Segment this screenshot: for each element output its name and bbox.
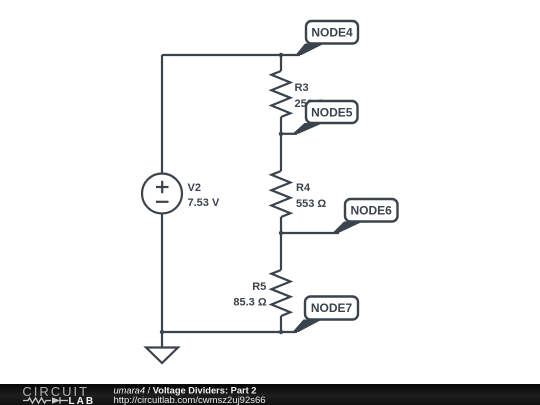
resistor R4 (271, 171, 290, 217)
wire: NODE6 flag stub (281, 232, 339, 234)
voltage source V2 (142, 174, 182, 214)
junction: NODE6 (279, 231, 283, 235)
svg-text:V2: V2 (188, 182, 201, 194)
logo schematic squiggle (23, 397, 68, 403)
footer bar (0, 384, 540, 405)
wire: left vertical below V2 (161, 214, 163, 333)
wire: left vertical above V2 (161, 55, 163, 174)
node flag NODE4 (296, 21, 359, 55)
wire: R5 to bottom net (280, 316, 282, 332)
svg-text:NODE7: NODE7 (311, 301, 353, 315)
wire: NODE6 junction to R5 (280, 233, 282, 270)
svg-text:NODE6: NODE6 (351, 204, 393, 218)
node flag NODE6 (333, 199, 398, 233)
svg-text:R5: R5 (252, 281, 266, 293)
svg-text:7.53 V: 7.53 V (188, 197, 220, 209)
junction: NODE7 (279, 330, 283, 334)
svg-text:R3: R3 (295, 82, 309, 94)
svg-text:R4: R4 (296, 182, 311, 194)
ground (146, 332, 178, 363)
svg-text:NODE4: NODE4 (311, 26, 353, 40)
svg-text:85.3 Ω: 85.3 Ω (233, 296, 266, 308)
wire: bottom horizontal net NODE7 (162, 331, 297, 333)
node flag NODE5 (293, 101, 358, 134)
wire: top horizontal net NODE4 (162, 54, 300, 56)
wire: right vertical stub NODE4 to R3 (280, 55, 282, 71)
svg-text:http://circuitlab.com/cwmsz2uj: http://circuitlab.com/cwmsz2uj92s66 (114, 395, 266, 405)
svg-text:umara4 / Voltage Dividers: Par: umara4 / Voltage Dividers: Part 2 (114, 386, 257, 396)
wire: R4 to NODE6 junction (280, 217, 282, 233)
node flag NODE7 (293, 297, 359, 333)
wire: NODE5 junction to R4 (280, 134, 282, 171)
svg-text:553 Ω: 553 Ω (296, 198, 326, 210)
logo diode triangle (52, 397, 60, 403)
junction: NODE5 (279, 132, 283, 136)
wire: NODE5 flag stub (281, 133, 297, 135)
junction: NODE4 (279, 53, 283, 57)
resistor R3 (271, 71, 290, 117)
junction: ground node (160, 330, 164, 334)
resistor R5 (271, 270, 290, 316)
svg-text:LAB: LAB (69, 396, 96, 405)
svg-text:NODE5: NODE5 (311, 105, 353, 119)
wire: R3 to NODE5 junction (280, 117, 282, 134)
